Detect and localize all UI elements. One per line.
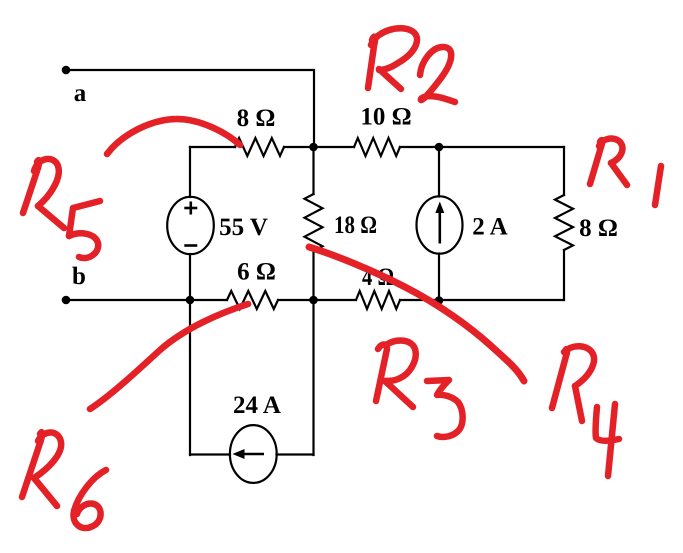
svg-text:8 Ω: 8 Ω bbox=[237, 105, 276, 132]
svg-text:2 A: 2 A bbox=[472, 214, 507, 241]
svg-text:18 Ω: 18 Ω bbox=[334, 212, 377, 239]
svg-text:10 Ω: 10 Ω bbox=[360, 104, 411, 131]
svg-text:a: a bbox=[74, 80, 87, 107]
svg-text:55 V: 55 V bbox=[219, 214, 268, 241]
svg-text:b: b bbox=[72, 263, 86, 290]
svg-text:24 A: 24 A bbox=[233, 392, 281, 419]
svg-text:8 Ω: 8 Ω bbox=[579, 215, 618, 242]
svg-text:6 Ω: 6 Ω bbox=[237, 259, 276, 286]
